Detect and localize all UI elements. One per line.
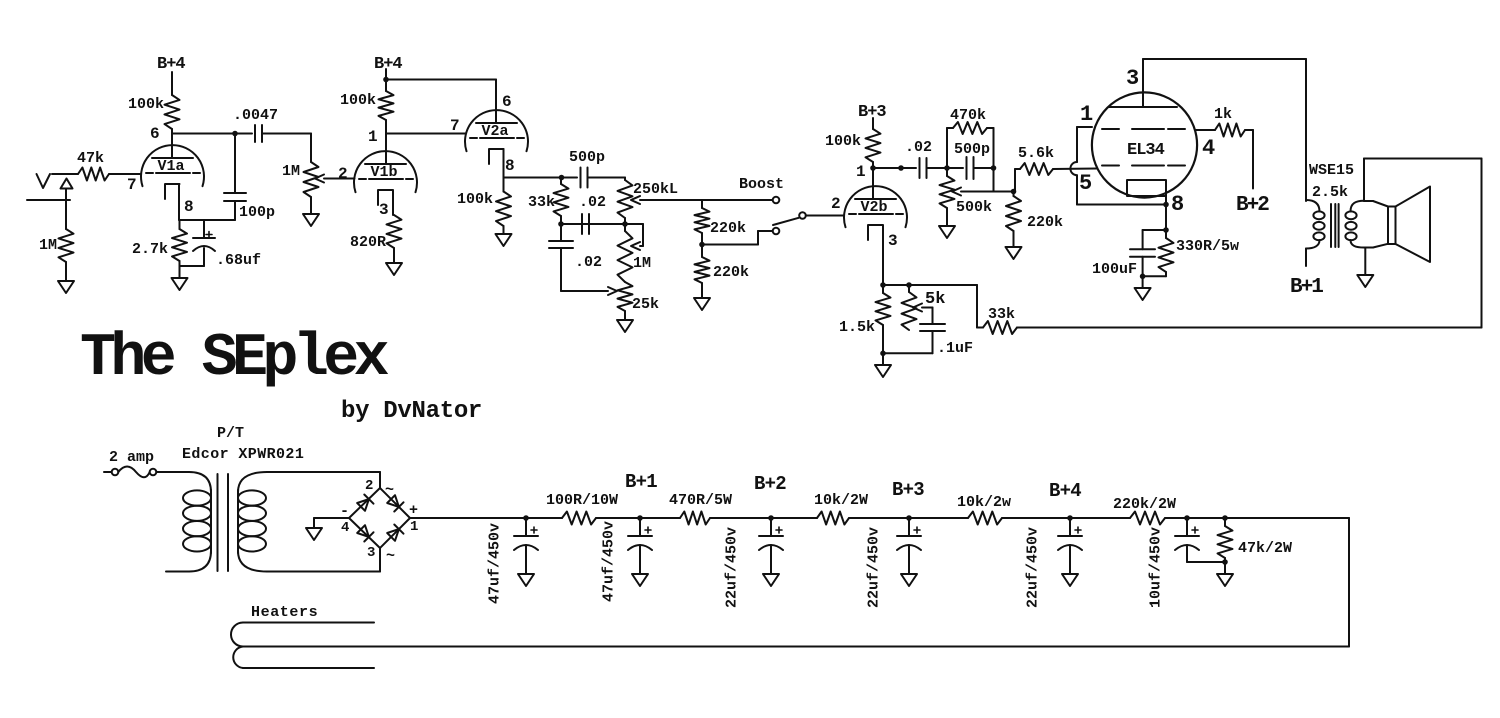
svg-text:B+1: B+1: [625, 471, 657, 493]
svg-text:220k: 220k: [713, 264, 749, 281]
svg-text:3: 3: [888, 232, 898, 250]
svg-text:V1b: V1b: [371, 164, 398, 181]
svg-text:The SEplex: The SEplex: [80, 325, 389, 393]
svg-text:B+4: B+4: [374, 55, 402, 74]
svg-text:220k: 220k: [710, 220, 746, 237]
svg-text:EL34: EL34: [1127, 141, 1165, 160]
svg-text:220k/2W: 220k/2W: [1113, 496, 1176, 513]
svg-text:47k: 47k: [77, 150, 104, 167]
svg-text:3: 3: [1126, 66, 1139, 91]
svg-text:1: 1: [410, 519, 418, 535]
svg-text:.0047: .0047: [233, 107, 278, 124]
svg-text:.02: .02: [905, 139, 932, 156]
svg-text:47k/2W: 47k/2W: [1238, 540, 1292, 557]
svg-text:1M: 1M: [282, 163, 300, 180]
svg-text:220k: 220k: [1027, 214, 1063, 231]
svg-text:100uF: 100uF: [1092, 261, 1137, 278]
svg-text:2: 2: [338, 165, 348, 183]
svg-text:V2a: V2a: [482, 123, 509, 140]
svg-text:8: 8: [184, 198, 194, 216]
svg-text:7: 7: [450, 117, 460, 135]
svg-text:7: 7: [127, 176, 137, 194]
svg-text:100k: 100k: [340, 92, 376, 109]
svg-text:1: 1: [856, 163, 866, 181]
svg-text:33k: 33k: [988, 306, 1015, 323]
svg-text:820R: 820R: [350, 234, 386, 251]
svg-text:6: 6: [150, 125, 160, 143]
svg-text:1: 1: [368, 128, 378, 146]
svg-text:33k: 33k: [528, 194, 555, 211]
svg-text:~: ~: [386, 548, 395, 565]
svg-text:1M: 1M: [39, 237, 57, 254]
svg-text:P/T: P/T: [217, 425, 244, 442]
svg-text:.02: .02: [575, 254, 602, 271]
svg-text:8: 8: [505, 157, 515, 175]
svg-text:470k: 470k: [950, 107, 986, 124]
svg-text:V1a: V1a: [158, 158, 185, 175]
svg-text:10k/2w: 10k/2w: [957, 494, 1011, 511]
svg-text:Edcor XPWR021: Edcor XPWR021: [182, 446, 304, 463]
svg-text:2.7k: 2.7k: [132, 241, 168, 258]
svg-text:.1uF: .1uF: [937, 340, 973, 357]
svg-text:5k: 5k: [925, 290, 945, 309]
svg-text:22uf/450v: 22uf/450v: [866, 527, 883, 608]
svg-text:470R/5W: 470R/5W: [669, 492, 732, 509]
svg-text:47uf/450v: 47uf/450v: [601, 521, 618, 602]
svg-text:47uf/450v: 47uf/450v: [487, 523, 504, 604]
svg-text:1: 1: [1080, 102, 1093, 127]
svg-text:4: 4: [341, 520, 349, 536]
svg-text:100p: 100p: [239, 204, 275, 221]
svg-text:+: +: [409, 502, 418, 519]
svg-text:22uf/450v: 22uf/450v: [1025, 527, 1042, 608]
svg-text:500p: 500p: [954, 141, 990, 158]
svg-text:4: 4: [1202, 136, 1215, 161]
svg-text:100R/10W: 100R/10W: [546, 492, 618, 509]
svg-text:5: 5: [1079, 171, 1092, 196]
svg-text:B+3: B+3: [858, 103, 886, 122]
svg-text:.02: .02: [579, 194, 606, 211]
svg-text:500p: 500p: [569, 149, 605, 166]
svg-text:100k: 100k: [128, 96, 164, 113]
svg-text:Boost: Boost: [739, 176, 784, 193]
svg-text:.68uf: .68uf: [216, 252, 261, 269]
svg-text:WSE15: WSE15: [1309, 162, 1354, 179]
svg-text:2: 2: [365, 478, 373, 494]
svg-text:6: 6: [502, 93, 512, 111]
svg-text:8: 8: [1171, 192, 1184, 217]
svg-text:B+4: B+4: [1049, 480, 1081, 502]
svg-text:330R/5w: 330R/5w: [1176, 238, 1239, 255]
svg-text:500k: 500k: [956, 199, 992, 216]
svg-text:10uf/450v: 10uf/450v: [1148, 527, 1165, 608]
svg-text:by DvNator: by DvNator: [341, 398, 482, 425]
svg-text:2.5k: 2.5k: [1312, 184, 1348, 201]
svg-text:B+1: B+1: [1290, 276, 1323, 299]
svg-text:B+3: B+3: [892, 479, 924, 501]
svg-text:22uf/450v: 22uf/450v: [724, 527, 741, 608]
svg-text:250kL: 250kL: [633, 181, 678, 198]
svg-text:10k/2W: 10k/2W: [814, 492, 868, 509]
svg-text:1M: 1M: [633, 255, 651, 272]
svg-text:100k: 100k: [457, 191, 493, 208]
svg-text:2 amp: 2 amp: [109, 449, 154, 466]
svg-text:B+2: B+2: [1236, 194, 1269, 217]
svg-text:Heaters: Heaters: [251, 604, 318, 621]
svg-text:100k: 100k: [825, 133, 861, 150]
svg-text:B+2: B+2: [754, 473, 786, 495]
svg-text:25k: 25k: [632, 296, 659, 313]
svg-text:1.5k: 1.5k: [839, 319, 875, 336]
svg-text:3: 3: [379, 201, 389, 219]
svg-text:2: 2: [831, 195, 841, 213]
svg-text:-: -: [340, 503, 349, 520]
svg-text:V2b: V2b: [861, 199, 888, 216]
svg-text:3: 3: [367, 545, 375, 561]
svg-text:1k: 1k: [1214, 106, 1232, 123]
svg-text:5.6k: 5.6k: [1018, 145, 1054, 162]
svg-text:B+4: B+4: [157, 55, 185, 74]
svg-text:~: ~: [385, 482, 394, 499]
